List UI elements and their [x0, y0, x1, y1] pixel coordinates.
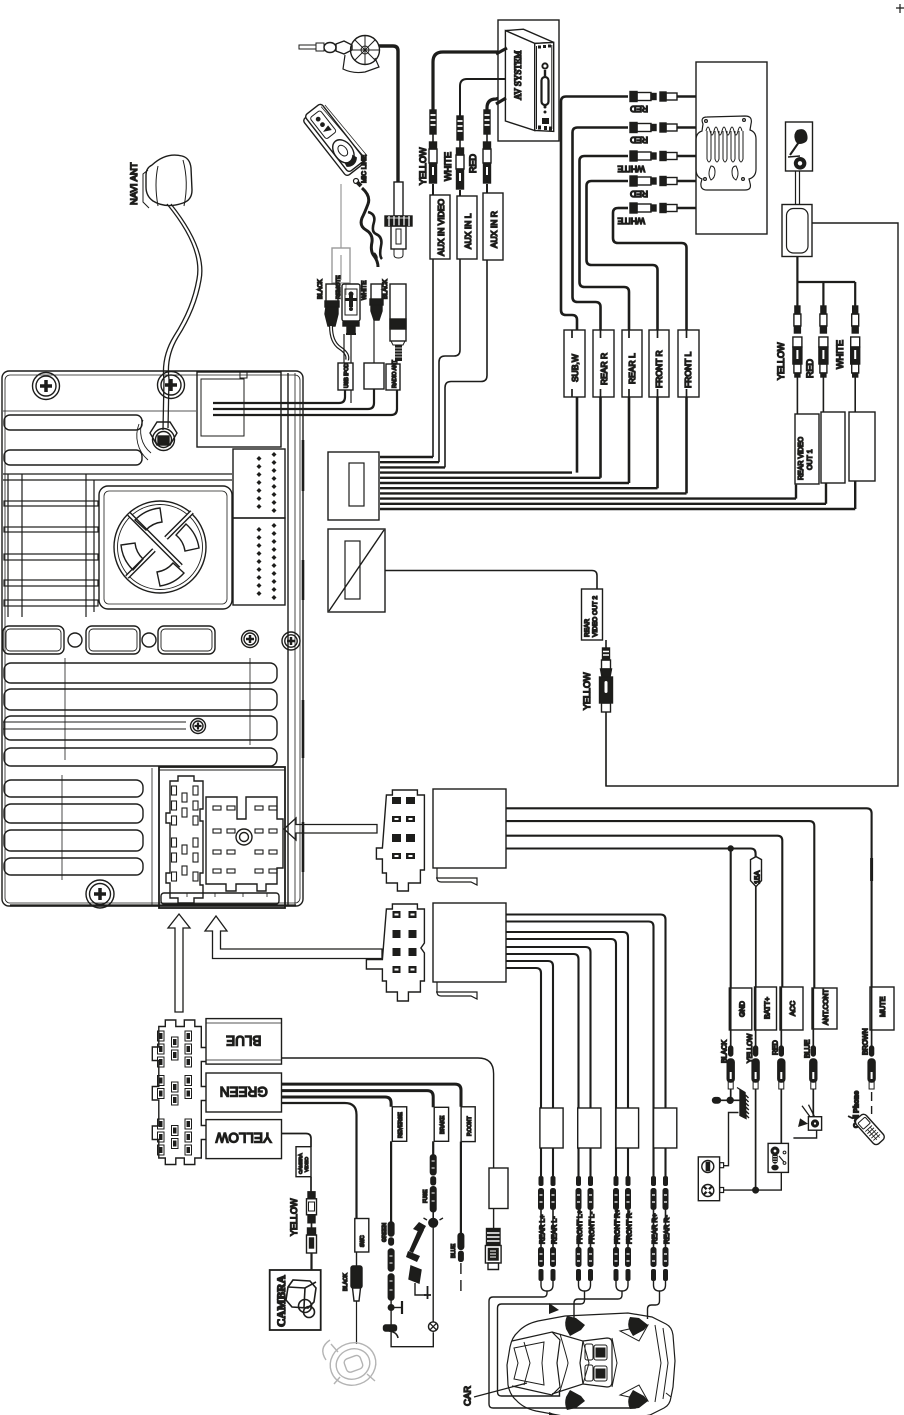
CAMERA VIDEO wire [282, 1134, 312, 1147]
RCA pair row5 WHITE [618, 203, 696, 213]
amplifier drawing [696, 116, 756, 190]
heatsink fin full [4, 716, 277, 740]
svg-text:FRONT L: FRONT L [683, 352, 693, 388]
CAR pointer [474, 1383, 527, 1397]
svg-text:GND: GND [738, 1001, 747, 1017]
battery [698, 1157, 723, 1201]
svg-text:GREEN: GREEN [220, 1084, 268, 1099]
cooling fan [99, 486, 232, 609]
svg-text:REVERSE: REVERSE [398, 1112, 404, 1138]
svg-text:FRONT R: FRONT R [654, 350, 664, 388]
REVERSE wire chain [382, 1141, 433, 1346]
svg-text:OUT 1: OUT 1 [807, 449, 814, 470]
MUTE box [870, 987, 894, 1030]
arrow into socket [284, 818, 377, 840]
rear video out 2 lead [605, 712, 607, 786]
CAMBRA box [270, 1270, 321, 1330]
video spare box [821, 412, 845, 483]
YELLOW box [206, 1120, 282, 1159]
screw top-left [33, 373, 60, 400]
rear socket housing [152, 767, 285, 908]
screw small [191, 719, 206, 734]
RCA pair row4 RED [592, 176, 697, 186]
svg-text:P.CONT: P.CONT [467, 1116, 473, 1136]
crossover box 1 [540, 1108, 563, 1148]
crossover box 2 [578, 1108, 601, 1148]
wires between bullets [541, 1210, 666, 1247]
FRONT L box [678, 330, 699, 397]
video T split [797, 257, 855, 307]
DIN connector [485, 1229, 501, 1270]
RCA jack BLACK [318, 255, 347, 360]
REVERSE box [392, 1107, 406, 1142]
fin structure lines [62, 658, 250, 880]
REAR R box [593, 330, 614, 397]
ground to battery wire [724, 1113, 739, 1166]
microphone box [786, 122, 813, 171]
REAR VIDEO OUT 2 wire [385, 571, 597, 590]
svg-text:BLACK: BLACK [318, 279, 324, 299]
arrow up to socket [168, 914, 190, 1012]
AUX IN L box [457, 196, 477, 259]
heatsink fin full [4, 748, 277, 766]
rear socket bottom rail [161, 893, 279, 904]
svg-text:RED: RED [630, 135, 648, 145]
svg-text:BLUE: BLUE [805, 1039, 812, 1058]
P.CONT pass box [489, 1168, 508, 1209]
BATT+ box [755, 987, 777, 1030]
AUX riser wires [433, 259, 487, 467]
car top view [507, 1313, 675, 1415]
rear socket plug A [166, 776, 203, 903]
svg-text:MUTE: MUTE [878, 996, 887, 1017]
svg-text:BLACK: BLACK [343, 1273, 349, 1291]
AUX IN R box [483, 193, 503, 260]
long slot lines [3, 722, 186, 729]
connector lead wires [344, 311, 397, 364]
label box wire stubs [572, 330, 687, 397]
NAVI ANT cable [163, 204, 198, 430]
BRAKE box [434, 1107, 448, 1141]
AV bus wires [380, 457, 855, 509]
mark on MUTE wire [870, 858, 873, 881]
svg-text:AUX IN R: AUX IN R [489, 211, 499, 248]
svg-text:WHITE: WHITE [835, 340, 845, 369]
AUX plug pair YELLOW [429, 110, 437, 195]
crossover box 3 [616, 1108, 639, 1148]
side strip marks [302, 440, 305, 872]
heatsink fin left [4, 804, 143, 823]
heatsink fin full [4, 689, 277, 710]
motor antenna [793, 1089, 821, 1138]
svg-text:BLUE: BLUE [451, 1244, 457, 1258]
speaker line wires upper runs [561, 97, 687, 494]
heatsink rungs behind fan [3, 474, 232, 617]
bullet terminal ACC [778, 1046, 785, 1089]
spare box [364, 363, 384, 389]
svg-text:BLACK: BLACK [383, 279, 389, 299]
crossover box 4 [654, 1108, 677, 1148]
power feed wires [506, 808, 872, 988]
svg-text:REAR L: REAR L [627, 353, 637, 384]
ISO plug lower [366, 904, 424, 1001]
reverse lamp [429, 1322, 438, 1331]
svg-text:RED: RED [630, 104, 648, 114]
screw bottom-left [86, 880, 114, 908]
svg-text:YELLOW: YELLOW [582, 672, 592, 710]
heatsink fin full [4, 663, 277, 683]
heatsink fin [4, 415, 142, 430]
AUX plug pair WHITE [456, 116, 464, 196]
screw on side strip [282, 632, 300, 650]
screw top-mid [158, 372, 185, 399]
iPod remote connector [336, 275, 360, 334]
heatsink fin [4, 450, 142, 465]
REAR VIDEO OUT 1 box [795, 414, 819, 484]
USB IPOD box [338, 363, 353, 390]
svg-text:RED: RED [630, 189, 648, 199]
head unit rear panel [2, 371, 303, 906]
ground junction [713, 1089, 741, 1103]
wires through boxes [731, 987, 872, 1048]
GND box [729, 988, 752, 1030]
AUX cables to AV system [433, 46, 508, 114]
connector pin grid upper [233, 449, 285, 518]
speaker bullet connectors upper [538, 1176, 669, 1210]
svg-text:CAMERA: CAMERA [298, 1153, 304, 1174]
REAR L box [622, 330, 642, 397]
AV connector box 1 [328, 452, 379, 520]
bullet terminal GND [727, 1046, 734, 1089]
jack lead wires [797, 377, 855, 414]
RCA pair row2 RED [578, 123, 697, 133]
FM antenna adapter [299, 36, 380, 73]
P.CONT box [461, 1107, 475, 1142]
corner mark top right [896, 4, 904, 13]
camera RCA pair [307, 1177, 317, 1270]
15A fuse [751, 857, 762, 988]
NAVI ANT antenna [143, 155, 192, 208]
svg-text:VIDEO: VIDEO [304, 1157, 310, 1172]
wired remote control [301, 101, 369, 177]
svg-text:15A: 15A [753, 871, 762, 884]
svg-text:SWC: SWC [360, 1235, 366, 1247]
svg-text:YELLOW: YELLOW [418, 147, 428, 185]
svg-text:BRAKE: BRAKE [440, 1115, 446, 1134]
P.CONT wire chain [451, 1142, 464, 1293]
speaker feed wires [506, 915, 666, 1177]
BRAKE wire chain [423, 1141, 443, 1322]
svg-text:REAR VIDEO: REAR VIDEO [798, 436, 805, 480]
SUB.W box [564, 330, 585, 397]
svg-text:REMOTE: REMOTE [336, 275, 342, 299]
monitor loop wire [606, 223, 898, 786]
svg-text:WHITE: WHITE [617, 216, 645, 226]
ACC box [780, 987, 803, 1030]
svg-text:ACC: ACC [788, 1001, 797, 1016]
svg-text:SUB,W: SUB,W [570, 354, 580, 382]
connector pin grid lower [233, 518, 285, 605]
brake pedal [409, 1266, 431, 1299]
svg-text:VIDEO OUT 2: VIDEO OUT 2 [592, 596, 599, 637]
svg-text:REAR R: REAR R [599, 353, 609, 385]
AV connector box 2 [328, 529, 385, 612]
svg-text:USB IPOD: USB IPOD [344, 363, 350, 388]
AV SYSTEM box [498, 20, 559, 141]
svg-text:MIC LINE: MIC LINE [361, 154, 368, 183]
heatsink fin left [4, 780, 143, 797]
svg-text:AV SYSTEM: AV SYSTEM [513, 51, 523, 100]
cell phone [848, 1107, 886, 1147]
head unit top-right connector bay [197, 371, 397, 447]
bullet terminal ANT [810, 1046, 817, 1089]
svg-text:YELLOW: YELLOW [289, 1198, 299, 1236]
heatsink fin left [4, 858, 143, 875]
ANT.CONT box [812, 988, 837, 1029]
video RCA jack WHITE [851, 306, 860, 377]
svg-text:WHITE: WHITE [617, 164, 645, 174]
video RCA jack YELLOW [793, 306, 802, 377]
ISO harness connector [152, 1020, 207, 1165]
svg-text:RED: RED [468, 153, 478, 173]
AUX plug pair RED [483, 110, 491, 193]
svg-text:BROWN: BROWN [863, 1028, 870, 1055]
rear socket plug B [206, 797, 283, 891]
svg-text:AUX IN VIDEO: AUX IN VIDEO [436, 198, 446, 256]
handbrake lever [406, 1222, 426, 1262]
mute dashed link [871, 1092, 873, 1114]
SWC box [343, 1219, 369, 1345]
svg-text:WHITE: WHITE [362, 281, 368, 300]
bent arrow from ISO plug [205, 916, 382, 959]
mid row recess boxes [3, 626, 215, 654]
GREEN box wires [281, 1084, 461, 1107]
screw mid right [242, 631, 259, 648]
svg-text:YELLOW: YELLOW [215, 1130, 272, 1145]
ISO plug upper [376, 790, 424, 891]
svg-text:REAR: REAR [584, 619, 591, 637]
RADIO ANT box [386, 359, 400, 390]
svg-text:BLUE: BLUE [226, 1033, 261, 1048]
ISO breakout box lower [433, 903, 506, 999]
bullet terminal BATT [752, 1046, 759, 1089]
car speakers [549, 1303, 648, 1415]
rear video out 2 RCA plug [600, 640, 613, 712]
svg-text:RED: RED [805, 358, 815, 378]
amplifier box [696, 62, 767, 234]
antenna jack nut [137, 420, 177, 460]
svg-text:GREEN: GREEN [382, 1223, 388, 1242]
ISO breakout box upper [433, 789, 506, 885]
BLUE wire to SWC DIN [282, 1058, 494, 1168]
ignition key switch [768, 1089, 788, 1172]
bullet terminal MUTE [868, 1046, 875, 1089]
antenna cable [379, 46, 398, 182]
svg-text:CAR: CAR [463, 1386, 474, 1406]
heatsink fin left [4, 830, 143, 851]
AV wire stubs into box [496, 48, 507, 104]
MIC LINE cord [354, 179, 383, 268]
steering wheel grey [323, 1336, 382, 1391]
svg-text:FUSE: FUSE [423, 1189, 429, 1203]
speaker bullet connectors lower [538, 1247, 669, 1281]
svg-text:YELLOW: YELLOW [776, 342, 786, 380]
video spare box [849, 412, 875, 481]
svg-text:WHITE: WHITE [443, 152, 453, 181]
svg-text:RED: RED [773, 1040, 780, 1055]
AUX IN VIDEO box [430, 195, 450, 259]
RCA pair row1 RED [566, 92, 696, 102]
BLUE box [206, 1019, 282, 1065]
svg-text:NAVI ANT: NAVI ANT [129, 162, 140, 205]
GREEN box [206, 1073, 282, 1112]
svg-text:BATT+: BATT+ [763, 997, 772, 1019]
CAMERA VIDEO box [296, 1147, 311, 1177]
chassis ground plate [737, 1088, 749, 1119]
RCA pair row3 WHITE [585, 151, 697, 161]
radio antenna socket BLACK [383, 279, 406, 361]
video RCA jack RED [819, 306, 828, 377]
REAR VIDEO OUT 2 box [582, 589, 603, 640]
svg-text:AUX IN L: AUX IN L [463, 213, 473, 249]
remote grey cable [332, 184, 350, 295]
battery feed junction [724, 1089, 782, 1193]
speaker pair U joins and car feed [489, 1281, 666, 1408]
FRONT R box [649, 330, 669, 397]
svg-text:ANT.CONT: ANT.CONT [821, 988, 830, 1025]
RCA jack WHITE [362, 281, 383, 320]
monitor module [782, 171, 812, 257]
antenna plug [385, 182, 412, 258]
